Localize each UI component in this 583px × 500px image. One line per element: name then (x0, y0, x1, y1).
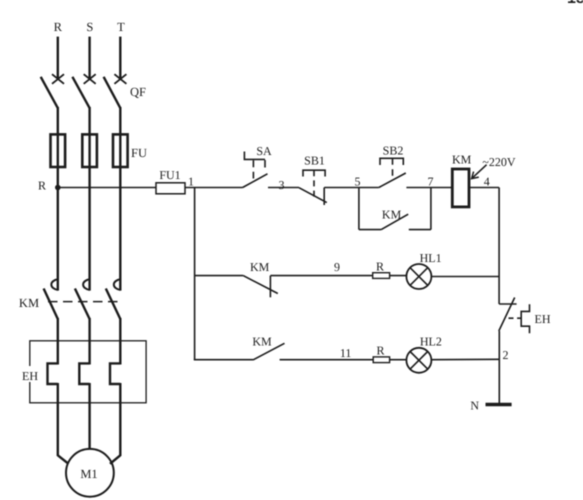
wire node5 to SB2 (359, 187, 379, 189)
pushbutton SB2 plunger dashed (392, 158, 394, 178)
svg-text:SA: SA (256, 144, 272, 158)
svg-text:11: 11 (340, 346, 352, 360)
svg-text:7: 7 (428, 175, 434, 189)
wire HL1 to rail (431, 276, 499, 278)
svg-text:KM: KM (382, 208, 402, 222)
svg-text:KM: KM (19, 296, 39, 310)
wire pole 3 KM to EH (119, 318, 121, 365)
wire R to HL2 (390, 359, 407, 361)
wire pole 2 to fuse (88, 107, 90, 135)
wire pole 2 fuse to KM (88, 134, 90, 279)
fuse FU pole 1 (51, 134, 66, 167)
left rail (194, 188, 196, 360)
right rail lower (498, 331, 500, 405)
right rail upper (498, 188, 500, 305)
svg-text:HL1: HL1 (420, 251, 442, 265)
wire pole2 arc stub (88, 280, 90, 291)
breaker QF pole 2 blade (72, 77, 89, 108)
wire heater pole2 lower (to motor) (88, 383, 90, 449)
KM NC right terminal (269, 276, 271, 298)
pushbutton SB2 cap (380, 158, 403, 165)
svg-text:FU1: FU1 (159, 168, 180, 182)
svg-text:QF: QF (130, 85, 146, 99)
svg-text:KM: KM (252, 335, 272, 349)
KM aux contact left wire (359, 229, 381, 231)
wire motor lead 1 diagonal (58, 455, 69, 464)
svg-text:SB2: SB2 (383, 144, 404, 158)
heater element pole 3 (110, 363, 120, 384)
svg-text:R: R (38, 179, 46, 193)
thermal relay EH box (30, 341, 146, 403)
label EH (heater) with white backing (21, 366, 39, 382)
row3 wire rail corner to KM NO (194, 359, 253, 361)
svg-text:2: 2 (503, 348, 509, 362)
svg-text:R: R (376, 260, 384, 274)
contactor KM pole 2 blade (75, 289, 90, 320)
arrow to coil (472, 165, 487, 179)
wire pole1 arc stub (57, 280, 59, 291)
pushbutton SB1 cap (303, 170, 325, 176)
switch SA handle (244, 152, 265, 168)
contactor KM pole 3 blade (106, 289, 121, 320)
breaker QF pole 1 blade (41, 77, 58, 108)
EH contact fixed terminal (499, 303, 516, 305)
heater element pole 2 (79, 363, 89, 384)
wire coil to node4 corner (469, 187, 499, 189)
breaker QF pole 3 contact x (114, 74, 126, 84)
pushbutton SB1 plunger dashed (313, 170, 315, 197)
svg-text:R: R (54, 20, 63, 34)
fuse FU pole 2 (82, 134, 97, 167)
wire phase T incoming (119, 37, 121, 80)
wire phase R incoming (57, 37, 59, 80)
wire phase S incoming (88, 37, 90, 80)
branch node5 down (358, 188, 360, 230)
fuse FU pole 3 (113, 134, 128, 167)
KM aux contact blade (381, 214, 408, 229)
svg-text:N: N (470, 399, 479, 413)
heater element pole 1 (48, 363, 58, 384)
switch SA blade (243, 174, 268, 188)
breaker QF pole 3 blade (104, 77, 121, 108)
EH contact blade (499, 298, 515, 332)
node R junction dot (55, 185, 61, 191)
svg-text:~220V: ~220V (482, 155, 515, 169)
wire KM NC to R resistor (270, 275, 372, 277)
svg-text:M1: M1 (80, 467, 97, 481)
svg-text:KM: KM (452, 153, 472, 167)
pushbutton SB1 blade (299, 188, 327, 203)
wire main control line R to FU1 (58, 187, 156, 189)
KM NC contact blade (row2) (243, 276, 278, 294)
pushbutton SB1 right terminal (323, 188, 325, 206)
wire heater pole1 lower (57, 383, 59, 456)
wire SA to SB1 (268, 187, 299, 189)
wire KM NO to R resistor (280, 359, 374, 361)
breaker QF pole 2 contact x (84, 74, 96, 84)
svg-text:18: 18 (567, 0, 583, 7)
contactor KM pole 1 blade (44, 289, 58, 320)
svg-text:9: 9 (334, 260, 340, 274)
contactor KM pole 2 fixed contact arc (83, 279, 89, 290)
switch SA plunger dashed (252, 160, 254, 178)
wire pole 2 KM to EH (88, 318, 90, 365)
fuse FU1 (156, 183, 185, 194)
svg-text:3: 3 (279, 178, 285, 192)
svg-text:SB1: SB1 (304, 154, 325, 168)
wire SB1 to node5 (324, 187, 359, 189)
svg-text:1: 1 (188, 175, 194, 189)
contactor KM linkage dashed (48, 301, 122, 303)
wire R to HL1 (390, 275, 407, 277)
wire pole 1 fuse to KM (57, 134, 59, 279)
coil KM rectangle (452, 169, 469, 207)
svg-text:R: R (376, 344, 384, 358)
KM aux contact right wire (409, 229, 431, 231)
svg-text:HL2: HL2 (420, 335, 442, 349)
svg-text:T: T (117, 20, 125, 34)
EH contact dashes (509, 317, 521, 319)
svg-text:EH: EH (22, 369, 38, 383)
resistor R row3 (373, 357, 389, 363)
terminal N bar (486, 403, 512, 406)
svg-text:KM: KM (250, 260, 270, 274)
wire pole3 arc stub (119, 280, 121, 291)
svg-text:EH: EH (535, 312, 551, 326)
wire HL2 to rail (431, 358, 499, 360)
lamp HL2 (406, 348, 431, 373)
control circuit thin lines (58, 144, 551, 413)
wire FU1 to SA (185, 187, 243, 189)
breaker QF pole 1 contact x (52, 74, 64, 84)
wire heater pole3 lower (119, 383, 121, 456)
svg-text:FU: FU (131, 146, 147, 160)
contactor KM pole 1 fixed contact arc (51, 279, 57, 290)
contactor KM pole 3 fixed contact arc (114, 279, 120, 290)
EH actuator hook (521, 304, 529, 333)
motor M1 circle (66, 449, 114, 497)
svg-text:5: 5 (355, 175, 361, 189)
wire pole 3 to fuse (119, 107, 121, 135)
svg-text:4: 4 (484, 175, 490, 189)
row2 wire rail to KM NC (195, 275, 244, 277)
resistor R row2 (373, 273, 390, 279)
lamp HL1 (406, 264, 431, 289)
wire pole 3 fuse to KM (119, 134, 121, 279)
branch node7 down (430, 188, 432, 230)
svg-text:S: S (86, 20, 93, 34)
wire pole 1 to fuse (57, 107, 59, 135)
wire motor lead 3 diagonal (110, 455, 120, 464)
wire pole 1 KM to EH (57, 318, 59, 365)
wire SB2 to coil KM (406, 187, 452, 189)
KM NO contact blade (row3) (253, 343, 285, 360)
pushbutton SB2 blade (379, 173, 406, 188)
